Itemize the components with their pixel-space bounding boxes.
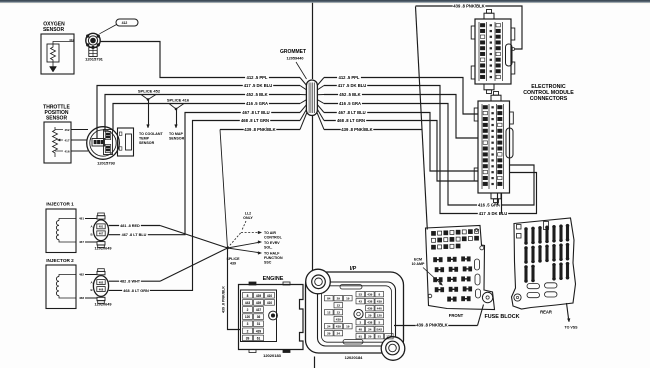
svg-text:SSC: SSC xyxy=(264,261,272,265)
svg-text:417 .5 DK BLU: 417 .5 DK BLU xyxy=(244,83,273,88)
svg-text:29: 29 xyxy=(368,314,372,318)
potentiometer symbol xyxy=(53,127,64,157)
ip top capsule xyxy=(340,285,362,290)
svg-text:12015793: 12015793 xyxy=(97,161,116,166)
svg-text:439: 439 xyxy=(256,294,262,298)
ground symbol below oxygen sensor element xyxy=(50,62,57,72)
svg-text:SPLICE: SPLICE xyxy=(227,257,241,261)
svg-text:2: 2 xyxy=(247,308,249,312)
svg-text:31: 31 xyxy=(257,322,261,326)
svg-text:417 .5 DK BLU: 417 .5 DK BLU xyxy=(338,83,367,88)
wire 468 right to ECM connector 2 xyxy=(324,121,478,182)
svg-text:439: 439 xyxy=(377,300,382,304)
svg-text:B42: B42 xyxy=(377,328,383,332)
svg-text:FRONT: FRONT xyxy=(449,313,464,318)
svg-text:24: 24 xyxy=(368,328,372,332)
grommet 12059440 xyxy=(306,80,317,116)
wire 439 left of grommet xyxy=(220,130,300,249)
ip center circle xyxy=(354,309,363,318)
svg-text:INJECTOR 2: INJECTOR 2 xyxy=(46,258,74,263)
front fuse block right column pill fuses xyxy=(475,259,481,298)
svg-text:84: 84 xyxy=(327,297,331,301)
svg-text:12020649: 12020649 xyxy=(95,302,112,306)
injector 1 internal wires xyxy=(59,219,76,243)
svg-text:TO EVRV: TO EVRV xyxy=(264,241,280,245)
svg-text:482: 482 xyxy=(99,280,104,284)
wire 416 from tps to grommet xyxy=(113,104,300,131)
svg-text:482 .8 WHT: 482 .8 WHT xyxy=(120,280,141,284)
wire 439 splice down to engine connector xyxy=(228,248,241,330)
ECM connector 1 latch xyxy=(506,44,513,66)
front fuse block small circles xyxy=(428,229,484,298)
wire 412 right to ECM connector 2 xyxy=(324,78,478,115)
svg-text:SOL.: SOL. xyxy=(264,246,272,250)
svg-text:439 .8 PNK/BLK: 439 .8 PNK/BLK xyxy=(453,4,484,9)
svg-text:GROMMET: GROMMET xyxy=(280,49,306,55)
svg-text:439: 439 xyxy=(336,325,341,329)
wire 439 fuse block to ip connector xyxy=(394,305,484,326)
svg-text:TO AIR: TO AIR xyxy=(264,231,276,235)
svg-text:452: 452 xyxy=(64,128,69,132)
rear fuse block top middle slot xyxy=(544,222,549,230)
wire 439 long vertical to fuse block xyxy=(416,7,428,230)
injector 1 pin labels 481 467 xyxy=(79,217,84,245)
svg-text:ONLY: ONLY xyxy=(243,216,253,220)
svg-text:FUNCTION: FUNCTION xyxy=(264,256,283,260)
svg-text:SENSOR: SENSOR xyxy=(139,141,155,145)
svg-text:412: 412 xyxy=(122,21,128,25)
wire to evrv solenoid xyxy=(228,241,262,248)
svg-text:91: 91 xyxy=(359,335,363,339)
callout pill 412 xyxy=(100,19,139,34)
oxygen sensor label xyxy=(43,21,65,33)
rear fuse block mounting circle xyxy=(514,294,521,301)
svg-text:SPLICE 416: SPLICE 416 xyxy=(167,98,190,103)
wire 417 from tps to grommet xyxy=(97,86,300,140)
rear fuse block top squares xyxy=(517,225,522,239)
wire label 468 .8 LT GRN right xyxy=(336,118,366,123)
front fuse block outline xyxy=(426,226,495,310)
dashed wire to air control xyxy=(228,231,262,248)
svg-text:481: 481 xyxy=(79,217,84,221)
svg-text:412 .5 PPL: 412 .5 PPL xyxy=(339,75,360,80)
wires converging into grommet left xyxy=(300,78,307,130)
wire label 416 .5 GRA left xyxy=(245,101,269,106)
wire 468 injector 2 to grommet xyxy=(85,121,300,299)
svg-text:468 .8 LT GRN: 468 .8 LT GRN xyxy=(337,118,365,123)
svg-text:19: 19 xyxy=(346,325,350,329)
svg-text:467 .8 LT BLU: 467 .8 LT BLU xyxy=(338,110,365,115)
front fuse block fuses xyxy=(434,257,472,302)
svg-text:416: 416 xyxy=(64,150,69,154)
wire 439 top run to ECM connector 1 xyxy=(416,6,523,50)
svg-text:13: 13 xyxy=(337,304,341,308)
wire 412 inside oxygen sensor box xyxy=(53,42,74,45)
to air control label xyxy=(264,231,283,240)
grommet label xyxy=(280,49,306,61)
to half function ssc label xyxy=(264,252,283,265)
wire label 452 .5 BLK right xyxy=(338,92,362,97)
wire label 417 .5 DK BLU right xyxy=(337,83,367,88)
ip bolt circle bottom right xyxy=(381,337,405,361)
svg-text:468 .8 LT GRN: 468 .8 LT GRN xyxy=(241,118,269,123)
svg-text:SENSOR: SENSOR xyxy=(46,116,68,122)
injector 2 connector 12020649 xyxy=(90,269,108,304)
splice 452 junction xyxy=(141,95,156,129)
svg-text:416 .5 GRA: 416 .5 GRA xyxy=(339,101,361,106)
wire label 417 .5 DK BLU left xyxy=(243,83,273,88)
ECM connector 2 bottom stub wires xyxy=(498,193,502,214)
svg-text:53: 53 xyxy=(359,293,363,297)
ECM connector 2 pin field xyxy=(482,104,504,189)
firewall line middle xyxy=(312,116,314,273)
svg-text:12015791: 12015791 xyxy=(85,57,104,62)
wire 481 injector 1 feed xyxy=(85,219,228,249)
svg-text:3: 3 xyxy=(247,322,249,326)
wire to vss with arrow xyxy=(567,303,571,322)
injector 2 pin labels 482 468 xyxy=(79,273,84,301)
svg-text:REAR: REAR xyxy=(540,310,552,315)
splice 439 label xyxy=(227,257,241,266)
svg-text:412: 412 xyxy=(69,38,74,42)
tps connector 12015793 round xyxy=(87,127,120,160)
svg-text:INJECTOR 1: INJECTOR 1 xyxy=(46,202,74,207)
front fuse block mounting circle xyxy=(482,292,492,302)
svg-text:467: 467 xyxy=(99,232,104,236)
wire 452 right to ECM connector 2 xyxy=(324,95,478,139)
svg-text:439 .8 PNK/BLK: 439 .8 PNK/BLK xyxy=(341,127,372,132)
wire label 468 .8 LT GRN left low xyxy=(122,288,150,292)
injector 1 box xyxy=(46,209,76,253)
wire label 481 .8 RED xyxy=(119,223,141,227)
injector 2 box xyxy=(46,265,76,309)
svg-text:481: 481 xyxy=(99,225,104,229)
throttle position sensor label xyxy=(43,105,70,122)
front fuse block top pin rows xyxy=(432,229,479,249)
wire label 412 .5 PPL left xyxy=(245,75,269,80)
svg-text:452 .5 BLK: 452 .5 BLK xyxy=(339,92,360,97)
to coolant temp sensor label xyxy=(139,132,163,145)
splice 416 junction xyxy=(169,104,184,129)
svg-text:467: 467 xyxy=(79,240,84,244)
svg-text:439: 439 xyxy=(256,301,262,305)
svg-text:439 .8 PNK/BLK: 439 .8 PNK/BLK xyxy=(416,323,447,328)
svg-text:29: 29 xyxy=(368,335,372,339)
ip connector outline xyxy=(306,272,404,353)
engine connector pin grid 12020183 xyxy=(241,290,277,342)
svg-text:437: 437 xyxy=(256,308,262,312)
svg-text:ENGINE: ENGINE xyxy=(263,276,284,282)
svg-text:439 .8 PNK/BLK: 439 .8 PNK/BLK xyxy=(244,127,275,132)
svg-text:410: 410 xyxy=(267,301,273,305)
svg-text:I/P: I/P xyxy=(350,266,357,272)
engine connector circle xyxy=(269,311,278,320)
rear fuse block outline xyxy=(512,218,576,309)
wire 417 right run xyxy=(324,86,537,214)
svg-text:43: 43 xyxy=(359,300,363,304)
ip bottom capsule xyxy=(343,340,363,345)
svg-text:2: 2 xyxy=(247,329,249,333)
svg-text:B: B xyxy=(90,288,92,292)
svg-text:416 .5 GRA: 416 .5 GRA xyxy=(246,101,268,106)
svg-text:416 .5 GRA: 416 .5 GRA xyxy=(478,203,500,208)
svg-text:TO HALF: TO HALF xyxy=(264,252,280,256)
wire label 416 .5 GRA lower xyxy=(477,202,501,207)
svg-text:468: 468 xyxy=(99,287,104,291)
firewall line upper xyxy=(312,3,314,79)
svg-text:439: 439 xyxy=(336,318,341,322)
svg-text:48: 48 xyxy=(359,328,363,332)
svg-text:439: 439 xyxy=(367,293,372,297)
ecm 10 amp fuse label xyxy=(412,258,443,286)
svg-text:12: 12 xyxy=(327,311,331,315)
ECM connector 2 latch xyxy=(506,128,513,158)
svg-text:439: 439 xyxy=(367,307,372,311)
wire label 439 .8 PNK/BLK top xyxy=(453,3,486,8)
svg-text:24: 24 xyxy=(337,332,341,336)
wire 416 right run xyxy=(324,104,534,206)
svg-text:467 .8 LT BLU: 467 .8 LT BLU xyxy=(242,110,269,115)
svg-text:10 AMP: 10 AMP xyxy=(412,262,425,266)
svg-text:443: 443 xyxy=(245,301,251,305)
svg-text:412 .5 PPL: 412 .5 PPL xyxy=(247,75,268,80)
throttle position sensor box xyxy=(44,122,71,163)
svg-text:120: 120 xyxy=(245,315,251,319)
svg-text:TO COOLANT: TO COOLANT xyxy=(139,132,163,136)
svg-text:438: 438 xyxy=(367,300,372,304)
wires fanning out of grommet right xyxy=(317,78,324,130)
tps connector side block xyxy=(118,128,134,156)
wire label 412 .5 PPL right xyxy=(337,75,361,80)
ECM connector 1 pin field xyxy=(479,22,503,81)
tps pin wires and labels 452 417 416 xyxy=(55,128,88,154)
ip bolt circle top left xyxy=(306,269,331,294)
svg-text:120: 120 xyxy=(377,314,382,318)
wire label 468 .8 LT GRN bundle xyxy=(240,118,270,123)
electronic control module connectors label xyxy=(523,84,574,102)
svg-text:12020183: 12020183 xyxy=(263,353,282,358)
wire label 452 .5 BLK left xyxy=(245,92,269,97)
svg-text:417 .5 DK BLU: 417 .5 DK BLU xyxy=(479,211,508,216)
grommet pointer line xyxy=(296,62,307,79)
svg-text:8: 8 xyxy=(247,294,249,298)
svg-text:439: 439 xyxy=(256,329,262,333)
injector 1 connector 12020649 xyxy=(90,213,108,248)
svg-text:13: 13 xyxy=(337,311,341,315)
svg-text:29: 29 xyxy=(327,332,331,336)
injector 1 coil xyxy=(56,221,59,240)
wire 467 right to ECM connector 2 xyxy=(324,113,478,172)
to map sensor label xyxy=(169,132,185,141)
ECM connector 2 body xyxy=(474,92,513,203)
wire label 482 .8 WHT xyxy=(119,279,141,283)
svg-text:51: 51 xyxy=(378,335,382,339)
wire label 439 .8 PNK/BLK bottom xyxy=(416,322,449,327)
svg-text:TO MAP: TO MAP xyxy=(169,132,184,136)
svg-text:39: 39 xyxy=(246,336,250,340)
svg-text:61: 61 xyxy=(257,336,261,340)
svg-text:439: 439 xyxy=(230,262,236,266)
svg-text:TO VSS: TO VSS xyxy=(564,326,578,330)
wire 412 from oxygen sensor connector to grommet xyxy=(100,42,300,78)
engine connector outline xyxy=(239,282,304,353)
wire 439 right horizontal xyxy=(324,129,422,131)
svg-text:439 .8 PNK/BLK: 439 .8 PNK/BLK xyxy=(222,286,226,313)
svg-text:19: 19 xyxy=(346,297,350,301)
svg-text:467 .8 LT BLU: 467 .8 LT BLU xyxy=(122,233,147,237)
wire 467 injector 1 to grommet xyxy=(85,113,300,243)
svg-text:481 .8 RED: 481 .8 RED xyxy=(120,224,140,228)
svg-text:24: 24 xyxy=(327,325,331,329)
svg-text:440: 440 xyxy=(377,307,382,311)
svg-text:ECM: ECM xyxy=(414,258,422,262)
wire label 439 .8 PNK/BLK bundle left xyxy=(244,127,277,132)
svg-text:TEMP: TEMP xyxy=(139,137,150,141)
wire label 417 .5 DK BLU lower xyxy=(478,211,508,216)
svg-text:B: B xyxy=(90,232,92,236)
splice 439 junction xyxy=(226,247,228,249)
firewall line bottom stub xyxy=(314,357,316,368)
to evrv sol label xyxy=(264,241,280,250)
wire label 467 .8 LT BLU bundle xyxy=(241,110,271,115)
svg-text:438: 438 xyxy=(367,321,372,325)
ip pin grid right xyxy=(356,292,393,339)
svg-text:SENSOR: SENSOR xyxy=(43,27,65,33)
svg-text:452 .5 BLK: 452 .5 BLK xyxy=(246,92,267,97)
svg-text:CONNECTORS: CONNECTORS xyxy=(530,96,568,102)
ip pin grid left 12020184 xyxy=(325,296,353,336)
svg-text:36: 36 xyxy=(257,315,261,319)
wire label 467 .8 LT BLU left low xyxy=(120,232,148,236)
svg-text:LL2: LL2 xyxy=(245,212,251,216)
rear fuse block fuses xyxy=(524,224,569,283)
svg-text:468: 468 xyxy=(79,296,84,300)
svg-text:29: 29 xyxy=(337,297,341,301)
svg-text:174: 174 xyxy=(386,335,391,339)
wire 452 from tps to grommet xyxy=(105,95,300,133)
svg-text:12020649: 12020649 xyxy=(95,247,112,251)
injector 2 coil xyxy=(56,277,59,296)
svg-text:SENSOR: SENSOR xyxy=(169,137,185,141)
wire to half function ssc xyxy=(228,248,262,254)
injector 2 internal wires xyxy=(59,275,76,299)
oxygen sensor box xyxy=(41,34,74,74)
svg-text:SPLICE 452: SPLICE 452 xyxy=(138,89,161,94)
svg-text:482: 482 xyxy=(79,273,84,277)
wire 482 injector 2 feed xyxy=(85,248,228,281)
svg-text:12059440: 12059440 xyxy=(287,57,304,61)
svg-text:417: 417 xyxy=(64,139,69,143)
svg-text:12020184: 12020184 xyxy=(345,355,364,360)
wire label 439 .8 PNK/BLK right xyxy=(341,127,374,132)
rear fuse block bottom capsules xyxy=(527,283,557,298)
oxygen sensor element (resistor) xyxy=(47,44,59,62)
svg-text:410: 410 xyxy=(267,294,273,298)
LL2 ONLY note xyxy=(242,212,253,231)
oxygen sensor connector C1 12015791 xyxy=(86,33,100,56)
ECM connector 1 body xyxy=(471,10,515,94)
wire label 467 .8 LT BLU right xyxy=(337,110,367,115)
svg-text:CONTROL: CONTROL xyxy=(264,236,283,240)
wire label 416 .5 GRA right xyxy=(338,101,362,106)
svg-text:FUSE BLOCK: FUSE BLOCK xyxy=(484,314,519,320)
svg-text:468 .8 LT GRN: 468 .8 LT GRN xyxy=(123,289,149,293)
